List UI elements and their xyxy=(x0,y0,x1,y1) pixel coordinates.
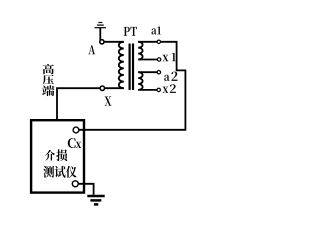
terminal low (ground side) of tester xyxy=(72,181,78,187)
label X xyxy=(104,96,111,105)
label a1 xyxy=(151,28,156,34)
label x2 xyxy=(163,87,169,93)
terminal x1 xyxy=(157,58,160,61)
label 高压端 (high-voltage lead) xyxy=(43,64,54,74)
tester box (dielectric loss tester) xyxy=(31,120,84,192)
label PT xyxy=(124,27,130,36)
terminal Cx of tester xyxy=(73,127,79,133)
PT primary winding (A-X) xyxy=(119,42,124,88)
wire x2 xyxy=(138,89,157,91)
wire ground to terminal A xyxy=(99,28,101,40)
label a2 xyxy=(164,75,169,81)
terminal x2 xyxy=(157,88,160,91)
transformer core xyxy=(129,44,131,91)
wire a2 xyxy=(138,71,157,73)
label 介损 测试仪 (dielectric loss tester) xyxy=(45,150,55,161)
wire a1 to Cx of tester xyxy=(76,42,185,130)
terminal X xyxy=(100,86,104,90)
label Cx xyxy=(68,138,76,148)
wire tester low terminal to ground xyxy=(75,184,93,195)
label x1 xyxy=(163,55,169,61)
terminal A xyxy=(100,40,104,44)
terminal a2 xyxy=(157,71,160,74)
ground (top, above terminal A) xyxy=(95,23,107,28)
wire x1 xyxy=(138,59,157,61)
ground (bottom, tester) xyxy=(87,196,104,204)
terminal a1 xyxy=(157,40,160,43)
wire A to PT primary top xyxy=(101,41,124,43)
PT secondary winding 1 (a1-x1) xyxy=(138,42,142,60)
wire primary bottom to X and to tester xyxy=(57,88,124,121)
label A xyxy=(88,45,95,54)
PT secondary winding 2 (a2-x2) xyxy=(138,72,142,90)
